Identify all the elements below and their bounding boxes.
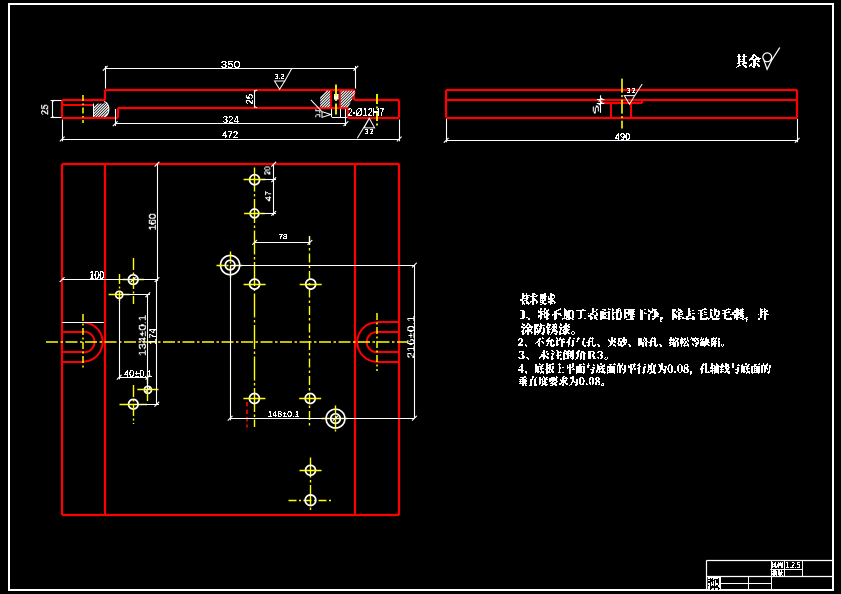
counterbore c12 [326, 409, 345, 428]
hole c1 [250, 175, 260, 185]
dim 40 [119, 299, 121, 380]
dim 78 [255, 242, 310, 244]
counterbore c3 [221, 256, 240, 275]
dim 5 [600, 95, 602, 113]
title block [707, 560, 833, 562]
plan outline red [62, 163, 399, 165]
bore walls red above [330, 91, 332, 107]
view1 outline red [104, 90, 106, 100]
hole c6 [128, 275, 138, 285]
dim 160 [157, 164, 159, 281]
hole c2 [250, 209, 259, 218]
view2 outline red [445, 90, 447, 118]
dim 216 [230, 265, 414, 267]
dim 47 [273, 180, 275, 216]
centerline hole column x254.6 [254, 168, 256, 428]
roughness below bottom right [364, 118, 375, 128]
roughness on top edge [275, 81, 285, 89]
hole c8 [144, 386, 151, 393]
bore walls white below [331, 109, 333, 118]
centerline col c13 c14 [310, 458, 312, 513]
dim 148 [230, 265, 232, 420]
dim 20 [273, 164, 275, 182]
dim 350 [105, 66, 107, 89]
dim 324 [115, 109, 117, 126]
dim 25 left [51, 100, 62, 102]
hole c10 [249, 394, 259, 404]
dim 472 [62, 120, 64, 142]
hole c14 [305, 495, 316, 506]
left slot red [62, 331, 84, 333]
centerlines view1 [82, 95, 84, 123]
main horizontal centerline [46, 341, 408, 343]
centerline view2 [621, 79, 623, 129]
rotated roughness at bore wall [322, 112, 331, 118]
hole c7 [116, 291, 123, 298]
dim 134 [147, 295, 149, 390]
hole c4 [250, 279, 260, 289]
hole c13 [306, 465, 316, 475]
hole c9 [129, 399, 139, 409]
dashed centerline x309.9 [309, 236, 311, 428]
hole c5 [306, 279, 316, 289]
technical requirements text [520, 294, 556, 305]
dim 490 [446, 119, 448, 143]
right slot red [377, 321, 400, 323]
slot centerlines [82, 314, 84, 370]
default roughness note [736, 55, 761, 68]
roughness on notch [624, 96, 634, 105]
hole c11 [305, 394, 315, 404]
dim 25 mid [254, 90, 256, 108]
dim 100 [62, 279, 157, 281]
view2 center notch [601, 100, 603, 104]
dim 174 [156, 280, 158, 405]
section mark red dashes [246, 402, 248, 428]
